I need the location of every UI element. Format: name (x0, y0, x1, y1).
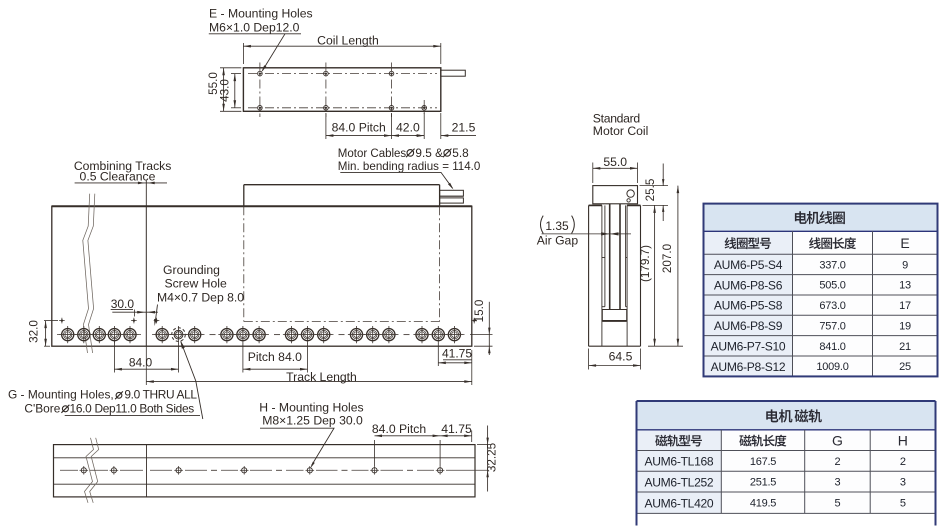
svg-text:841.0: 841.0 (819, 341, 845, 353)
dim 32.0 (28, 320, 59, 347)
grounding hole mark left track B (131, 318, 137, 324)
dim Track Length (146, 346, 472, 385)
leader G (180, 340, 203, 419)
motor cables side view (440, 190, 464, 203)
section track outer (589, 205, 641, 346)
dim 21.5 top view (415, 121, 476, 137)
dim 43.0 top view (218, 74, 241, 108)
svg-text:64.5: 64.5 (609, 350, 633, 364)
label air gap (537, 216, 579, 248)
svg-text:C'Bore: C'Bore (24, 401, 60, 415)
label H mounting holes (259, 401, 363, 428)
clearance indicator (138, 181, 155, 207)
track bottom view body (54, 445, 476, 497)
dim 30.0 (111, 297, 158, 317)
svg-text:2: 2 (900, 456, 906, 468)
svg-text:AUM6-P8-S6: AUM6-P8-S6 (714, 278, 783, 292)
svg-text:21.5: 21.5 (452, 121, 476, 135)
svg-text:Motor Cables: Motor Cables (338, 148, 407, 160)
svg-text:84.0 Pitch: 84.0 Pitch (372, 422, 426, 436)
svg-text:25: 25 (899, 361, 911, 373)
dim 207.0 section (640, 186, 684, 347)
table motor coil frame (704, 204, 938, 377)
bottom view seam line (146, 445, 148, 497)
holes row centerline (57, 334, 465, 336)
svg-text:5: 5 (835, 498, 841, 510)
track joint seam line (145, 206, 147, 346)
dim 55.0 top view (207, 68, 242, 112)
svg-text:505.0: 505.0 (819, 280, 845, 292)
svg-text:M8×1.25 Dep 30.0: M8×1.25 Dep 30.0 (262, 414, 363, 428)
svg-text:21: 21 (899, 341, 911, 353)
label Grounding Screw Hole (157, 263, 244, 304)
svg-text:207.0: 207.0 (661, 243, 674, 273)
svg-text:E - Mounting Holes: E - Mounting Holes (209, 7, 313, 21)
coil top view body (243, 68, 440, 112)
top view centerline columns (260, 63, 424, 118)
svg-text:13: 13 (899, 280, 911, 292)
label Combining Tracks (74, 159, 172, 183)
svg-text:AUM6-P7-S10: AUM6-P7-S10 (711, 339, 786, 353)
svg-text:M4×0.7 Dep 8.0: M4×0.7 Dep 8.0 (157, 290, 244, 304)
coil side view hidden outline (244, 206, 440, 321)
svg-text:2: 2 (835, 456, 841, 468)
svg-text:M6×1.0 Dep12.0: M6×1.0 Dep12.0 (209, 21, 300, 35)
table motor coil data rows (711, 258, 911, 374)
svg-text:AUM6-TL420: AUM6-TL420 (644, 496, 713, 510)
svg-text:AUM6-TL252: AUM6-TL252 (644, 475, 713, 489)
bottom view break line right (90, 438, 99, 503)
dim 179.7 section (639, 205, 683, 346)
top view centerline row1 (248, 73, 437, 75)
section cable circles (627, 190, 634, 202)
svg-text:AUM6-P5-S4: AUM6-P5-S4 (714, 258, 783, 272)
svg-text:AUM6-P5-S8: AUM6-P5-S8 (714, 299, 783, 313)
track side view body (52, 206, 472, 346)
air gap leader (542, 232, 632, 235)
section coil top block (593, 186, 638, 204)
svg-text:84.0 Pitch: 84.0 Pitch (332, 121, 386, 135)
svg-text:337.0: 337.0 (819, 259, 845, 271)
svg-text:42.0: 42.0 (396, 121, 420, 135)
svg-text:19: 19 (899, 320, 911, 332)
table motor coil title (795, 211, 845, 224)
svg-text:Coil Length: Coil Length (317, 34, 379, 48)
bottom view inner line 1 (54, 457, 476, 459)
svg-text:251.5: 251.5 (750, 477, 776, 489)
svg-text:5: 5 (900, 498, 906, 510)
bottom view mounting holes H (80, 466, 445, 475)
svg-text:0.5 Clearance: 0.5 Clearance (80, 169, 156, 183)
section magnets (602, 205, 627, 306)
dim 15.0 (470, 299, 493, 355)
svg-text:AUM6-P8-S12: AUM6-P8-S12 (711, 360, 786, 374)
svg-text:(179.7): (179.7) (639, 245, 652, 282)
svg-text:9: 9 (902, 259, 908, 271)
dim Pitch 84.0 side (243, 343, 308, 373)
leader H (260, 428, 334, 468)
dim 41.75 bottom (440, 422, 472, 437)
table motor coil col headers (725, 235, 910, 251)
coil top view cable stub (441, 70, 466, 76)
svg-text:757.0: 757.0 (819, 320, 845, 332)
svg-text:Grounding: Grounding (163, 263, 220, 277)
break line right (88, 194, 95, 353)
top view ext lines bottom (326, 113, 441, 139)
grounding hole mark right track end (471, 318, 477, 324)
svg-text:419.5: 419.5 (750, 498, 776, 510)
dim 41.75 side (438, 343, 472, 366)
svg-text:Min. bending radius = 114.0: Min. bending radius = 114.0 (338, 160, 481, 173)
svg-text:84.0: 84.0 (129, 356, 153, 370)
dim 84.0 side (114, 341, 178, 373)
dim 64.5 section (589, 349, 641, 370)
svg-text:G - Mounting Holes,: G - Mounting Holes, (8, 387, 114, 401)
section blade foot (602, 310, 626, 321)
svg-text:H: H (898, 432, 908, 448)
dim 42.0 top view (392, 121, 425, 137)
svg-text:AUM6-P8-S9: AUM6-P8-S9 (714, 319, 783, 333)
label Motor Cables side (338, 146, 481, 173)
svg-text:15.0: 15.0 (473, 299, 486, 322)
bottom dim ext lines (375, 431, 472, 467)
label Standard Motor Coil (593, 111, 649, 138)
svg-text:43.0: 43.0 (218, 79, 231, 102)
dim 84.0 Pitch bottom (372, 422, 440, 437)
label E mounting holes (209, 7, 313, 35)
svg-text:3: 3 (900, 477, 906, 489)
leader E (261, 34, 285, 73)
svg-text:5.8: 5.8 (452, 146, 469, 160)
svg-text:9.5 &: 9.5 & (415, 146, 443, 160)
section track inner walls (602, 205, 627, 346)
table magnet track frame (637, 401, 936, 526)
svg-text:55.0: 55.0 (603, 155, 627, 169)
svg-text:AUM6-TL168: AUM6-TL168 (644, 455, 713, 469)
svg-text:1.35: 1.35 (545, 219, 569, 233)
svg-text:41.75: 41.75 (442, 347, 472, 361)
bottom view centerline (60, 469, 489, 471)
grounding hole mark left track A (59, 318, 65, 324)
table magnet track col headers (655, 432, 908, 448)
svg-text:Air Gap: Air Gap (537, 234, 579, 248)
svg-text:167.5: 167.5 (750, 456, 776, 468)
svg-text:673.0: 673.0 (819, 300, 845, 312)
svg-text:16.0 Dep11.0 Both Sides: 16.0 Dep11.0 Both Sides (70, 401, 195, 415)
svg-text:25.5: 25.5 (644, 178, 657, 201)
break line left (83, 194, 90, 353)
coil side view visible outline (244, 185, 440, 207)
section coil blade (610, 204, 620, 310)
svg-text:H - Mounting Holes: H - Mounting Holes (259, 401, 363, 415)
dim Coil Length (243, 34, 440, 65)
svg-text:3: 3 (835, 477, 841, 489)
top view centerline row2 (248, 107, 437, 109)
leader grounding (154, 305, 160, 327)
bottom view break line left (85, 438, 94, 503)
svg-text:G: G (832, 432, 843, 448)
svg-text:Pitch 84.0: Pitch 84.0 (248, 350, 302, 364)
dim 25.5 section (640, 164, 669, 222)
dim 84.0 Pitch top view (326, 121, 392, 137)
table magnet track title (766, 409, 822, 422)
svg-text:17: 17 (899, 300, 911, 312)
dim 32.25 (477, 426, 499, 492)
svg-text:E: E (900, 235, 909, 251)
dim 55.0 section (593, 155, 638, 183)
svg-text:41.75: 41.75 (441, 422, 472, 436)
label G mounting holes (8, 387, 200, 415)
svg-text:30.0: 30.0 (111, 297, 135, 311)
svg-text:1009.0: 1009.0 (816, 361, 848, 373)
bottom view inner line 2 (54, 483, 476, 485)
svg-text:Screw Hole: Screw Hole (164, 277, 227, 291)
table magnet track data rows (644, 455, 905, 511)
track mounting holes G row (59, 326, 463, 343)
leader motor cables (340, 172, 453, 189)
svg-text:9.0 THRU ALL: 9.0 THRU ALL (124, 387, 197, 401)
svg-text:Motor Coil: Motor Coil (593, 124, 649, 138)
top view mounting holes E (258, 71, 427, 110)
svg-text:32.0: 32.0 (28, 320, 41, 343)
